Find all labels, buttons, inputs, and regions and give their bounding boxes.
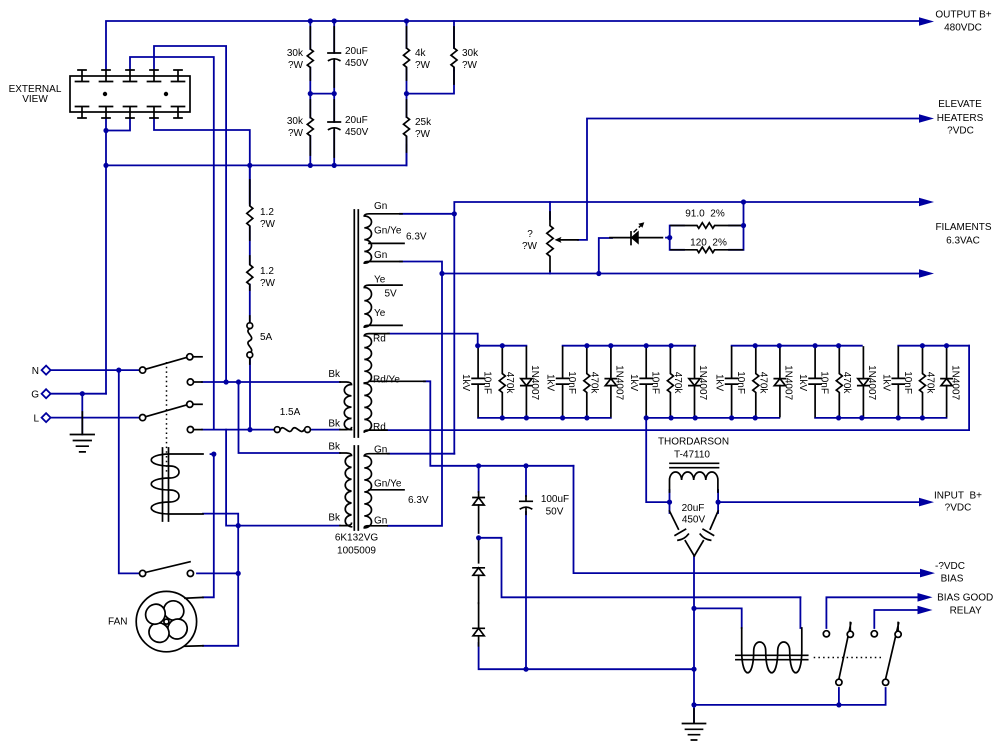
- svg-text:ELEVATE: ELEVATE: [938, 99, 982, 110]
- svg-text:?VDC: ?VDC: [947, 126, 974, 137]
- wire: LED drop from filament line2: [599, 238, 612, 274]
- junction dots ladder rail B: [584, 343, 589, 348]
- capacitor 20uF 450V lower (x=334): [328, 100, 340, 157]
- ladder cell 3: [628, 347, 708, 417]
- svg-text:Gn/Ye: Gn/Ye: [374, 226, 402, 237]
- wire: potentiometer bottom leg: [549, 271, 551, 274]
- switch S1a (N) pivot contact: [140, 354, 203, 374]
- ladder cell 2: [545, 347, 625, 417]
- wire: resistor chain 1.2/1.2/5A x=250 down to row4: [249, 165, 251, 429]
- svg-text:?W: ?W: [288, 60, 304, 71]
- svg-text:Ye: Ye: [374, 275, 386, 286]
- wire: bias diode chain top from H2: [478, 466, 480, 492]
- wire: 30k resistor legs x=310: [309, 21, 311, 165]
- switch S2 (fan) pivot and contact: [140, 562, 194, 577]
- svg-text:?W: ?W: [462, 60, 478, 71]
- junction dots on rail y=165: [103, 163, 108, 168]
- capacitor 20uF 450V upper (x=334): [328, 27, 340, 87]
- junction dots ladder rail F: [920, 343, 925, 348]
- ladder cell 1 (cap C, resistor R, diode D): [460, 347, 540, 417]
- junction dots on B+ top rail: [308, 18, 313, 23]
- wire: row2 N switched line to T1 primary top: [202, 381, 340, 383]
- ground symbol (bias return): [683, 709, 706, 740]
- wire: ladder cell1 top rail: [478, 345, 527, 347]
- wire: T1 6.3V no.1 bottom Gn to filament line2: [400, 262, 442, 274]
- svg-text:20uF: 20uF: [345, 46, 368, 57]
- choke L1 winding: [670, 472, 718, 492]
- choke L1 THORDARSON T-47110 core: [670, 463, 719, 467]
- transformer T2 secondary 6.3V no.2 (Gn/GnYe/Gn): [364, 454, 404, 528]
- wire: Rd/Ye center tap to H2 bias line: [424, 381, 574, 466]
- resistor 1.2 ohm lower (x=250): [247, 256, 253, 290]
- LED indicator body: [610, 232, 662, 245]
- terminal L diamond: [42, 413, 51, 422]
- junction dot relay common: [836, 702, 841, 707]
- resistor 4k (x=406.5): [404, 27, 410, 80]
- ground symbol (mains earth): [71, 412, 95, 452]
- svg-text:?W: ?W: [415, 129, 431, 140]
- wire: G to earth ground: [81, 394, 83, 435]
- junction dot relay coil top: [211, 452, 216, 457]
- connector J1 polarizing dots: [103, 92, 107, 96]
- svg-text:?VDC: ?VDC: [945, 503, 972, 514]
- wire: choke left terminal: [669, 490, 671, 513]
- svg-text:VIEW: VIEW: [22, 94, 48, 105]
- junction dot G row: [80, 391, 85, 396]
- wire: relay coil bottom down to fan bottom: [203, 514, 238, 646]
- resistor 1.2 ohm upper (x=250): [247, 180, 253, 240]
- wire: LED to resistor pair left rail: [666, 237, 670, 239]
- svg-text:THORDARSON: THORDARSON: [658, 437, 729, 448]
- svg-text:1.5A: 1.5A: [280, 407, 301, 418]
- wire: row4 L switched line to 1.5A fuse and T1 primary bottom: [202, 429, 340, 431]
- dotted mechanical link for mains switch: [166, 362, 168, 473]
- junction dot bias chain tap: [476, 535, 481, 540]
- wire: bias chain bottom to ground bus: [479, 643, 694, 669]
- svg-text:FAN: FAN: [108, 617, 127, 628]
- switch S1b (L) pivot contact: [140, 401, 203, 421]
- arrow RELAY: [918, 606, 933, 615]
- svg-text:30k: 30k: [287, 116, 304, 127]
- svg-text:-?VDC: -?VDC: [935, 561, 965, 572]
- wire: vertical x=226 from row4 to T2 primary bottom lead: [226, 430, 340, 526]
- wire: Rd top lead to ladder cell1: [388, 334, 478, 346]
- wire: Gn bottom vertical down to T2 secondary bottom: [388, 274, 442, 526]
- arrow INPUT B+: [919, 498, 934, 507]
- wire: OUTPUT B+ top rail from connector pin 2 to arrow: [106, 21, 919, 70]
- svg-text:6.3V: 6.3V: [406, 232, 427, 243]
- svg-text:30k: 30k: [462, 48, 479, 59]
- svg-text:G: G: [31, 390, 39, 401]
- svg-text:RELAY: RELAY: [950, 606, 982, 617]
- arrow FILAMENTS top: [919, 198, 934, 207]
- svg-text:450V: 450V: [345, 127, 369, 138]
- wire: Rd bottom lead bus under ladder: [386, 346, 969, 430]
- wire: relay common bottom line: [694, 688, 886, 705]
- junction dots on mid rail: [308, 91, 313, 96]
- junction dot row4 fuse 5A: [247, 427, 252, 432]
- wire: 4k/25k legs x=406.5: [406, 21, 408, 165]
- fuse F2 1.5A on row4: [274, 427, 310, 433]
- fan M1 blades: [142, 597, 191, 646]
- svg-text:?W: ?W: [260, 278, 276, 289]
- svg-text:450V: 450V: [682, 515, 706, 526]
- svg-text:Bk: Bk: [328, 369, 341, 380]
- resistor 30k right (x=454): [451, 27, 457, 84]
- potentiometer ? ?W body: [547, 212, 553, 271]
- svg-text:Bk: Bk: [328, 442, 341, 453]
- arrow OUTPUT B+: [919, 17, 934, 26]
- svg-text:?W: ?W: [415, 60, 431, 71]
- arrow ELEVATE HEATERS: [919, 114, 934, 123]
- fan M1 housing: [136, 591, 196, 651]
- svg-text:20uF: 20uF: [682, 503, 705, 514]
- wire: G row from terminal to x=106 vertical: [51, 393, 106, 395]
- wire: center vertical from cap V point to ground: [693, 557, 695, 723]
- svg-text:25k: 25k: [415, 117, 432, 128]
- arrow FILAMENTS bottom: [919, 269, 934, 278]
- wire: bias chain middle tap to bias-good line: [479, 538, 801, 598]
- svg-text:Rd: Rd: [373, 334, 386, 345]
- junction dots ladder cell1 top rail: [475, 343, 480, 348]
- bias rectifier diode chain D8: [473, 538, 484, 604]
- svg-text:Gn: Gn: [374, 516, 387, 527]
- junction dot Gn top / filament line1: [452, 211, 457, 216]
- svg-text:20uF: 20uF: [345, 115, 368, 126]
- capacitor 100uF 50V: [520, 496, 532, 514]
- svg-text:?W: ?W: [522, 241, 538, 252]
- wire: T1 6.3V no.1 top Gn to filament line1: [400, 213, 454, 215]
- ladder cell 4: [714, 347, 794, 417]
- wire: resistor pair right rail from filament line1: [729, 202, 744, 250]
- junction dots choke terminals: [667, 500, 672, 505]
- wire: bias relay coil left terminal to center vertical: [694, 608, 742, 628]
- wire: relay coil top tie to fan top: [203, 454, 214, 597]
- svg-text:BIAS: BIAS: [941, 573, 964, 584]
- transformer T2 primary winding (Bk-Bk): [340, 453, 352, 527]
- wire: N row from terminal to switch: [51, 369, 139, 371]
- svg-text:Ye: Ye: [374, 308, 386, 319]
- wire: left relay contact drop to common: [838, 688, 840, 705]
- transformer T1 secondary 6.3V no.1 (Gn/GnYe/Gn): [364, 214, 404, 263]
- junction dots ladder rail C: [644, 415, 649, 420]
- svg-text:100uF: 100uF: [541, 494, 569, 505]
- junction dot line1 / resistor pair rail: [741, 199, 746, 204]
- fan M1 leads: [185, 597, 203, 646]
- svg-text:6K132VG: 6K132VG: [335, 533, 379, 544]
- junction dot 100uF bottom: [523, 667, 528, 672]
- svg-text:30k: 30k: [287, 48, 304, 59]
- wire: BIAS GOOD arrow line down to relay contact: [826, 597, 918, 628]
- fuse 5A (x=250): [247, 316, 253, 364]
- resistor 91.0 2%: [671, 223, 743, 229]
- svg-text:Bk: Bk: [328, 513, 341, 524]
- wire: RELAY arrow line down to relay contact: [874, 610, 918, 628]
- svg-text:1.2: 1.2: [260, 266, 274, 277]
- junction dot N row: [116, 368, 121, 373]
- svg-text:L: L: [33, 414, 39, 425]
- wire: INPUT B+ line to arrow: [718, 501, 919, 503]
- wire: ELEVATE HEATERS line from pot wiper: [578, 119, 919, 240]
- svg-text:Gn: Gn: [374, 250, 387, 261]
- junction dots center ground vertical: [691, 606, 696, 611]
- relay K2 contact b: [871, 623, 901, 686]
- terminal G diamond: [42, 389, 51, 398]
- svg-text:1.2: 1.2: [260, 207, 274, 218]
- junction dot resistor pair right rail: [741, 223, 746, 228]
- potentiometer wiper arrow: [560, 239, 578, 241]
- wire: ladder bottom rail C: [646, 417, 779, 419]
- junction dot fan switch row: [236, 571, 241, 576]
- capacitor 20uF 450V left of V pair: [670, 511, 695, 556]
- junction dot coil bottom x primary feed: [236, 523, 241, 528]
- svg-text:Gn/Ye: Gn/Ye: [374, 479, 402, 490]
- capacitor 20uF 450V right of V pair: [694, 511, 718, 556]
- wire: 20uF cap legs x=334: [333, 21, 335, 165]
- bias rectifier diode chain D7: [473, 492, 484, 533]
- wire: resistor pair left rail: [670, 226, 684, 250]
- svg-text:50V: 50V: [546, 507, 564, 518]
- bias rectifier diode chain D9: [473, 603, 484, 646]
- svg-text:5A: 5A: [260, 332, 273, 343]
- arrow -?VDC BIAS: [920, 569, 935, 578]
- wire: connector pin 2 bottom down the left side to G row: [105, 119, 107, 394]
- wire: ladder top rail D: [732, 345, 862, 347]
- transformer T1/T2 core: [354, 210, 358, 530]
- svg-text:Rd: Rd: [373, 422, 386, 433]
- svg-text:Gn: Gn: [374, 201, 387, 212]
- junction dots row2: [224, 379, 229, 384]
- resistor 30k lower (x=310): [307, 100, 313, 155]
- wire: fan switch row to coil-bottom vertical: [197, 572, 238, 574]
- wire: ladder top rail F to bus corner: [898, 345, 969, 347]
- terminal N diamond: [42, 366, 51, 375]
- relay K2 bias relay coil: [736, 628, 808, 673]
- transformer T1 secondary HV (Rd/RdYe/Rd): [364, 334, 425, 432]
- wire: filament line1 to FILAMENTS arrow: [454, 202, 919, 214]
- svg-text:6.3V: 6.3V: [408, 495, 429, 506]
- svg-text:T-47110: T-47110: [674, 450, 710, 461]
- junction dot Gn bottom / filament line2: [439, 271, 444, 276]
- wire: potentiometer top leg: [549, 202, 551, 219]
- relay K2 contact a: [823, 623, 853, 686]
- wire: vertical x=238.5 from row2 down to T2 primary top lead: [239, 382, 341, 453]
- wire: ladder bottom rail E: [815, 417, 946, 419]
- wire: connector pin 3 top to vertical at x=214: [130, 57, 214, 430]
- connector J1 EXTERNAL VIEW body: [70, 76, 190, 112]
- resistor 25k (x=406.5): [404, 100, 410, 152]
- svg-text:?W: ?W: [260, 219, 276, 230]
- relay K1 coil (left, vertical): [151, 448, 203, 521]
- svg-text:HEATERS: HEATERS: [937, 113, 984, 124]
- svg-text:OUTPUT B+: OUTPUT B+: [935, 10, 991, 21]
- wire: T2 secondary top lead: [388, 453, 454, 455]
- svg-text:450V: 450V: [345, 58, 369, 69]
- wire: bias relay coil right terminal up to bias-good line: [799, 597, 801, 628]
- switch S1b throw contact on row4: [187, 427, 202, 433]
- wire: ladder top rail B: [563, 345, 696, 347]
- wire: L row from terminal to switch: [51, 417, 139, 419]
- wire: ladder bottom rail A: [478, 417, 611, 419]
- wire: choke feed from rail C down to THORDARSON: [646, 418, 669, 502]
- wire: filament line2 to FILAMENTS arrow: [442, 273, 919, 275]
- junction dots ladder rail E: [836, 415, 841, 420]
- wire: 100uF bottom lead: [525, 512, 527, 669]
- svg-text:91.0 2%: 91.0 2%: [685, 209, 725, 220]
- junction dot LED / resistor pair left rail: [667, 235, 672, 240]
- transformer T1 primary winding (Bk-Bk): [340, 382, 352, 430]
- junction dot LED drop on line2: [596, 271, 601, 276]
- resistor 30k upper (x=310): [307, 27, 313, 80]
- junction dot connector jumper: [103, 128, 108, 133]
- svg-text:4k: 4k: [415, 48, 427, 59]
- wire: connector pin 4 top to vertical at x=226: [154, 46, 226, 382]
- svg-text:?: ?: [527, 229, 533, 240]
- wire: 100uF top from H2: [525, 466, 527, 496]
- junction dots ladder rail D: [753, 343, 758, 348]
- svg-text:6.3VAC: 6.3VAC: [946, 236, 980, 247]
- ladder cell 5: [797, 347, 877, 417]
- svg-text:BIAS GOOD: BIAS GOOD: [937, 592, 993, 603]
- wire: H2 right end down and right to -VDC BIAS arrow: [574, 466, 921, 573]
- svg-text:Gn: Gn: [374, 445, 387, 456]
- svg-text:FILAMENTS: FILAMENTS: [935, 222, 991, 233]
- wire: 30k leg x=454: [453, 21, 455, 71]
- wire: Gn top vertical down to T2 secondary top: [453, 214, 455, 454]
- wire: mid rail between screen resistors and caps: [310, 93, 334, 95]
- svg-text:480VDC: 480VDC: [944, 22, 982, 33]
- switch S1a throw contact on row2: [187, 379, 202, 385]
- LED arrows: [634, 222, 645, 232]
- wire: jumper connector pins 2-3 bottom: [106, 119, 130, 131]
- ladder cell 6: [880, 347, 960, 417]
- svg-text:INPUT B+: INPUT B+: [934, 491, 982, 502]
- connector J1 pins bottom row: [76, 107, 185, 119]
- arrow BIAS GOOD: [918, 593, 933, 602]
- resistor 120 2%: [671, 247, 743, 253]
- svg-text:Rd/Ye: Rd/Ye: [373, 374, 400, 385]
- junction dots ladder rail A: [500, 415, 505, 420]
- svg-text:5V: 5V: [385, 289, 398, 300]
- wire: N dot vertical down to fan switch: [119, 370, 139, 573]
- dotted mechanical link for bias relay: [814, 657, 884, 659]
- transformer T1 secondary 5V (Ye/Ye): [364, 285, 402, 327]
- connector J1 pins top row: [76, 70, 185, 82]
- wire: connector pin 4 bottom over to resistor chain x=250: [154, 119, 250, 204]
- wire: lower rail y=165: [106, 145, 407, 165]
- wire: choke right terminal: [717, 490, 719, 513]
- svg-text:N: N: [32, 366, 39, 377]
- wire: mid rail segment 4k to 30k: [407, 71, 455, 94]
- junction dots H2 bias line: [476, 463, 481, 468]
- svg-text:?W: ?W: [288, 128, 304, 139]
- svg-text:Bk: Bk: [328, 419, 341, 430]
- svg-text:120 2%: 120 2%: [690, 238, 727, 249]
- svg-text:1005009: 1005009: [337, 546, 376, 557]
